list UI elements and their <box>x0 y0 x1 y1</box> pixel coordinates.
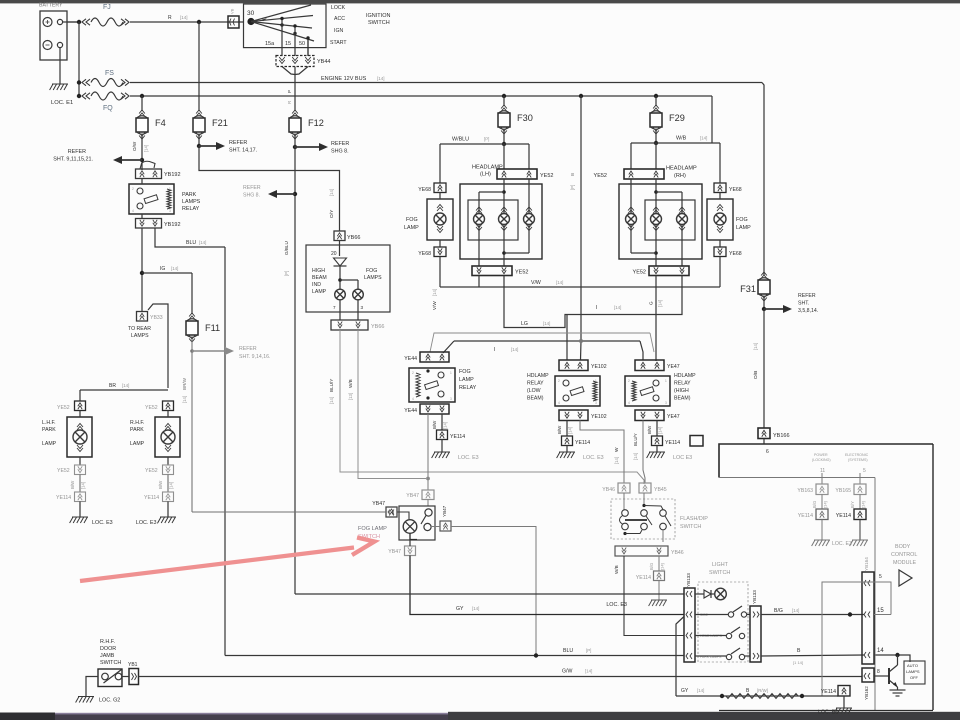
label HIGH BEAM IND LAMP <box>312 268 327 295</box>
module high-beam-ind & fog lamps box <box>306 245 390 312</box>
wire W/B to light switch <box>614 556 684 636</box>
svg-text:[14]: [14] <box>169 482 174 489</box>
svg-text:LOC. E3: LOC. E3 <box>458 455 479 461</box>
label ENGINE 12V BUS <box>321 76 385 82</box>
svg-text:YE52: YE52 <box>57 468 70 474</box>
wire ignition pins to YB44 <box>282 20 308 56</box>
label HEADLAMP LH <box>472 165 503 178</box>
wire FJ to ignition <box>130 15 243 22</box>
wire bus to F4 <box>141 96 143 111</box>
svg-text:F11: F11 <box>205 323 220 333</box>
fuse F29 <box>650 105 685 134</box>
svg-text:FOG: FOG <box>459 369 471 375</box>
svg-text:PARK: PARK <box>182 192 197 198</box>
connector YB46 <box>602 483 630 493</box>
svg-text:HEADLAMP: HEADLAMP <box>666 166 697 172</box>
svg-text:YE68: YE68 <box>418 187 431 193</box>
svg-text:GY: GY <box>681 688 689 694</box>
bcm internal loop <box>822 582 891 696</box>
wire B to auto-lamps <box>874 653 910 662</box>
connector YB133 right <box>750 590 761 662</box>
lamp LH-1 <box>474 207 485 231</box>
wire LH lamp returns <box>479 225 529 266</box>
label FOG LAMP RH <box>736 217 751 231</box>
connector YE102 bottom <box>559 410 607 421</box>
svg-text:[14]: [14] <box>144 145 149 152</box>
svg-text:YB133: YB133 <box>686 573 691 587</box>
svg-text:SWITCH: SWITCH <box>100 660 121 666</box>
refer arrow F12 right <box>293 141 350 155</box>
wire I lower <box>443 339 643 360</box>
svg-text:ELECTRONIC: ELECTRONIC <box>845 453 869 457</box>
svg-text:[14]: [14] <box>614 305 621 310</box>
wire F4 down <box>132 136 149 170</box>
lamp R.H.F. park box <box>155 417 180 457</box>
wire bus upper right drop to F31 <box>762 83 764 276</box>
wire B/Y bcm <box>850 495 866 510</box>
svg-text:LG: LG <box>521 321 528 327</box>
svg-text:ACC: ACC <box>334 16 345 22</box>
connector YB164 strip <box>862 557 874 664</box>
svg-text:YE52: YE52 <box>145 468 158 474</box>
wire B column <box>570 96 581 360</box>
ground battery LOC.E1 <box>50 84 74 106</box>
svg-text:LOC. E3: LOC. E3 <box>583 455 604 461</box>
fog lamp LH box <box>427 199 453 240</box>
connector YB45 <box>639 483 667 493</box>
svg-text:BEAM): BEAM) <box>674 396 691 402</box>
svg-text:1: 1 <box>450 371 452 375</box>
wire BLU/Y output <box>633 421 645 484</box>
wire RH lamp returns <box>631 225 682 266</box>
lamp high beam ind <box>335 289 346 300</box>
body control module outline <box>719 444 933 711</box>
svg-text:5: 5 <box>879 574 882 580</box>
svg-text:1: 1 <box>665 379 667 383</box>
wire YE102 BW <box>557 421 573 437</box>
svg-text:3: 3 <box>361 305 364 310</box>
svg-text:3: 3 <box>169 209 171 213</box>
svg-text:BLU/Y: BLU/Y <box>329 379 334 392</box>
svg-text:YE52: YE52 <box>594 173 607 179</box>
svg-text:RELAY: RELAY <box>674 381 691 387</box>
svg-text:RELAY: RELAY <box>527 381 544 387</box>
svg-text:BLU: BLU <box>563 648 573 654</box>
connector YE52 LHF park <box>57 401 86 411</box>
svg-text:FS: FS <box>105 70 114 77</box>
svg-text:YB44: YB44 <box>317 59 330 65</box>
svg-text:YB47: YB47 <box>442 505 447 517</box>
ground fog relay LOC.E3 <box>432 452 479 461</box>
ground RHF LOC.E3 <box>136 517 176 526</box>
module pins <box>333 300 364 320</box>
svg-text:YB162: YB162 <box>864 686 869 700</box>
svg-text:[14]: [14] <box>658 300 663 307</box>
label HEADLAMP RH <box>666 166 697 180</box>
svg-text:REFER: REFER <box>229 140 247 146</box>
wire LG labels <box>521 321 550 327</box>
svg-text:[14]: [14] <box>199 240 206 245</box>
svg-text:[14]: [14] <box>823 501 828 508</box>
connector YB163 <box>797 484 828 495</box>
svg-text:REFER: REFER <box>243 185 261 191</box>
label POWER/ELECTRONIC <box>812 453 869 462</box>
wire IG branch to F11 <box>142 266 192 314</box>
label FLASH/DIP SWITCH <box>680 516 708 530</box>
wire bus to F29 <box>655 96 657 106</box>
light switch internals <box>695 588 750 660</box>
svg-text:LAMPS: LAMPS <box>906 669 920 674</box>
svg-text:[14]: [14] <box>432 289 437 296</box>
svg-text:SHT.: SHT. <box>798 301 809 307</box>
label LIGHT SWITCH <box>709 562 730 576</box>
svg-text:YE47: YE47 <box>667 364 680 370</box>
connector YB66 top <box>334 231 360 241</box>
svg-text:YB45: YB45 <box>654 487 667 493</box>
connector YE52 RH bottom <box>633 266 689 276</box>
svg-text:[P]: [P] <box>586 648 591 653</box>
svg-text:4: 4 <box>558 401 560 405</box>
svg-text:F21: F21 <box>212 118 228 128</box>
svg-text:LOC. E3: LOC. E3 <box>92 520 113 526</box>
svg-text:[14]: [14] <box>81 482 86 489</box>
svg-text:YB66: YB66 <box>347 235 360 241</box>
fog lamp switch S2 box <box>397 506 435 540</box>
ground low relay LOC.E3 <box>557 452 604 461</box>
wire relay left pin down <box>140 179 144 312</box>
fuse F11 <box>186 313 220 342</box>
headlamp RH outer box <box>619 184 702 259</box>
connector YB192 bottom <box>136 219 181 229</box>
svg-text:YE114: YE114 <box>575 440 590 446</box>
svg-text:LAMPS: LAMPS <box>364 275 382 281</box>
wire YE44 B/W to YE114 <box>432 414 448 430</box>
fuse F4 <box>136 110 166 139</box>
svg-text:F31: F31 <box>740 284 756 294</box>
wire bus lower <box>130 94 712 98</box>
svg-text:START: START <box>330 40 347 46</box>
svg-text:GY: GY <box>456 606 464 612</box>
svg-text:G/W: G/W <box>562 669 572 675</box>
svg-text:W: W <box>614 447 620 452</box>
svg-text:[14]: [14] <box>329 397 334 404</box>
svg-text:TO REAR: TO REAR <box>128 326 151 332</box>
label PARK LAMPS RELAY <box>182 192 201 212</box>
svg-text:LAMP: LAMP <box>459 377 474 383</box>
wire W output <box>580 421 624 484</box>
wire YB44 merge <box>282 67 308 112</box>
headlamp LH inner box <box>468 200 518 240</box>
svg-text:REFER: REFER <box>68 149 86 155</box>
label HDLAMP RELAY LOW <box>527 373 549 402</box>
connector YE44 bottom <box>404 404 449 414</box>
svg-text:15: 15 <box>877 608 884 614</box>
svg-text:YB66: YB66 <box>371 324 384 330</box>
connector YE114 bcm-left <box>798 509 828 520</box>
svg-text:B/W: B/W <box>432 420 437 429</box>
svg-text:YE102: YE102 <box>591 364 607 370</box>
connector YB192 top <box>136 161 181 178</box>
svg-text:R.H.F.: R.H.F. <box>130 420 144 426</box>
ignition switch internals <box>247 5 314 47</box>
wire YE114 high to gnd <box>656 446 658 453</box>
fusible link FQ <box>82 92 129 112</box>
svg-text:[13]: [13] <box>348 393 353 400</box>
wire foglamp RH to conn <box>719 143 721 247</box>
wire I upper <box>504 276 682 361</box>
door jamb switch S5 <box>98 669 122 687</box>
svg-text:[14]: [14] <box>700 136 707 141</box>
wire O/Y branch <box>199 146 340 231</box>
wire F11 down <box>190 339 194 512</box>
connector YE114 fog relay <box>437 430 466 440</box>
svg-text:SHG 8.: SHG 8. <box>243 193 260 199</box>
svg-text:[14]: [14] <box>633 453 638 460</box>
wire FJ junction to F21 <box>198 22 200 111</box>
connector YE102 top <box>559 360 607 371</box>
svg-text:SWITCH: SWITCH <box>680 524 701 530</box>
svg-text:(HIGH: (HIGH <box>674 388 689 394</box>
svg-text:[14]: [14] <box>122 383 129 388</box>
wire bus to F30 <box>503 96 505 106</box>
light switch S4 box <box>698 582 748 662</box>
wire RH lamp feeds <box>631 179 682 213</box>
svg-text:4: 4 <box>412 397 414 401</box>
label TO REAR LAMPS <box>128 326 151 339</box>
connector YE114 LHF <box>56 492 86 502</box>
svg-text:P: P <box>287 90 292 93</box>
svg-text:[14]: [14] <box>377 76 385 81</box>
node battery junction <box>77 20 81 24</box>
wire YB33 hook to park lamps <box>148 304 168 388</box>
svg-text:REFER: REFER <box>331 141 349 147</box>
svg-text:2: 2 <box>132 187 134 191</box>
wire F11 feed into YB47 <box>192 511 386 513</box>
svg-text:3: 3 <box>450 397 452 401</box>
svg-text:O/Y: O/Y <box>329 209 335 218</box>
relay K3 hdlamp low <box>555 376 600 406</box>
fuse F21 <box>193 110 228 139</box>
svg-text:F29: F29 <box>669 113 685 123</box>
connector YE52 RHF lower <box>145 465 174 475</box>
bottom border bar <box>0 712 960 720</box>
svg-text:O/B: O/B <box>753 371 759 379</box>
svg-text:[14]: [14] <box>568 427 573 434</box>
svg-text:(LOCKING): (LOCKING) <box>812 458 831 462</box>
svg-text:11: 11 <box>820 468 825 474</box>
ground transistor <box>890 690 906 696</box>
ground bcm right <box>850 540 868 546</box>
svg-text:BEAM: BEAM <box>312 275 327 281</box>
svg-text:YB33: YB33 <box>150 315 163 321</box>
svg-text:3,5,8,14.: 3,5,8,14. <box>798 308 818 314</box>
svg-text:FOG: FOG <box>736 217 748 223</box>
svg-text:BEAM): BEAM) <box>527 396 544 402</box>
svg-text:(SYSTEMS): (SYSTEMS) <box>848 458 868 462</box>
lamp L.H.F. park box <box>67 417 92 457</box>
svg-text:YB165: YB165 <box>835 488 851 494</box>
ground flashdip LOC.E3 <box>606 600 667 608</box>
ground bcm left <box>812 540 830 546</box>
wire B/G to YE114 <box>649 556 665 571</box>
label ignition positions <box>330 5 347 46</box>
label FOG LAMP RELAY <box>459 369 477 391</box>
battery B1 <box>39 3 67 61</box>
svg-text:[14]: [14] <box>660 563 665 570</box>
wire YB166 to BCM <box>764 439 769 456</box>
svg-text:FOG LAMP: FOG LAMP <box>358 526 387 532</box>
bcm pin 11 <box>820 468 825 484</box>
svg-text:B/Y: B/Y <box>850 501 855 508</box>
svg-text:[P]: [P] <box>484 137 489 142</box>
svg-text:JAMB: JAMB <box>100 653 115 659</box>
svg-text:2: 2 <box>558 379 560 383</box>
relay K1 park lamps <box>129 184 174 214</box>
svg-text:[14]: [14] <box>472 606 479 611</box>
svg-text:YB46: YB46 <box>602 487 615 493</box>
svg-text:YB47: YB47 <box>406 493 419 499</box>
svg-text:LAMPS: LAMPS <box>182 199 201 205</box>
label LOC E3 bcm <box>832 541 852 547</box>
svg-text:[14]: [14] <box>171 266 178 271</box>
svg-text:LOC. E3: LOC. E3 <box>832 541 852 547</box>
svg-text:[14]: [14] <box>182 396 187 403</box>
connector YB46 wide <box>615 546 684 556</box>
fog lamp RH box <box>707 199 733 240</box>
svg-text:B/G: B/G <box>774 608 783 614</box>
connector YE68 LH bottom <box>418 247 446 257</box>
svg-text:B/W: B/W <box>557 425 562 434</box>
svg-text:IND: IND <box>312 282 321 288</box>
svg-text:B/W: B/W <box>158 480 163 489</box>
svg-text:FQ: FQ <box>103 105 113 112</box>
svg-text:F4: F4 <box>155 118 166 128</box>
svg-text:1: 1 <box>169 187 171 191</box>
svg-text:HDLAMP: HDLAMP <box>674 373 696 379</box>
wire F30 into YE52 <box>504 144 529 169</box>
resistor R1 <box>726 694 798 699</box>
svg-text:14: 14 <box>877 648 884 654</box>
svg-text:[P]: [P] <box>570 185 575 190</box>
svg-text:BATTERY: BATTERY <box>39 3 63 9</box>
svg-text:LOC. E1: LOC. E1 <box>51 100 73 106</box>
wire BLU column long <box>224 247 226 656</box>
svg-text:YE114: YE114 <box>636 575 651 581</box>
svg-text:YE44: YE44 <box>404 356 417 362</box>
wire door jamb gnd <box>86 677 98 697</box>
svg-text:BODY: BODY <box>895 544 911 550</box>
node F29 out <box>654 131 658 145</box>
svg-text:ENGINE 12V BUS: ENGINE 12V BUS <box>321 76 367 82</box>
annotation arrow <box>80 538 375 582</box>
svg-text:YE47: YE47 <box>667 414 680 420</box>
connector YE68 RH bottom <box>714 247 742 257</box>
wire RHF BW <box>158 475 174 493</box>
connector YE52 LH bottom <box>472 266 528 276</box>
wire YE114 low to gnd <box>566 446 568 453</box>
label FOG LAMPS <box>364 268 382 281</box>
bcm pin numbers <box>877 574 884 675</box>
wire LHF BW <box>70 475 86 493</box>
svg-text:[14]: [14] <box>511 347 518 352</box>
wire tap to resistor line <box>676 617 684 697</box>
svg-text:YE102: YE102 <box>591 414 607 420</box>
wire BLU long <box>225 648 684 658</box>
wire B/G bcm <box>812 495 828 510</box>
svg-text:BR: BR <box>109 383 116 389</box>
connector YB165 <box>835 484 866 495</box>
wire bus lower right drop <box>711 96 713 143</box>
svg-text:[1 14]: [1 14] <box>793 660 803 665</box>
svg-text:LOCK: LOCK <box>331 5 346 11</box>
ground high relay LOC.E3 <box>647 452 693 461</box>
svg-text:B/G: B/G <box>812 501 817 508</box>
connector YE68 LH top <box>418 183 446 193</box>
svg-text:YE114: YE114 <box>836 513 851 519</box>
wire O/B column <box>753 309 764 428</box>
svg-text:B: B <box>797 648 801 654</box>
connector YB47 top <box>406 490 434 500</box>
svg-text:[14]: [14] <box>697 688 704 693</box>
fusible link FJ <box>82 4 129 26</box>
wire row1 G/BLU to light switch <box>295 593 684 595</box>
svg-text:SHT. 9,14,16.: SHT. 9,14,16. <box>239 354 270 360</box>
label LHF PARK LAMP <box>42 420 57 447</box>
svg-text:IGN: IGN <box>334 28 343 34</box>
wire B to BCM pin14 <box>761 648 864 665</box>
svg-text:[14]: [14] <box>614 457 619 464</box>
svg-text:YB46: YB46 <box>671 550 684 556</box>
connector YE52 LHF lower <box>57 465 86 475</box>
svg-text:YE68: YE68 <box>729 187 742 193</box>
refer arrow F21 <box>197 136 257 154</box>
svg-text:LAMPS: LAMPS <box>131 333 149 339</box>
svg-text:YE44: YE44 <box>404 408 417 414</box>
svg-text:CONTROL: CONTROL <box>891 552 917 558</box>
wire YB47 into switch <box>427 500 429 507</box>
svg-text:G: G <box>649 301 654 305</box>
svg-text:YE68: YE68 <box>729 251 742 257</box>
svg-text:MODULE: MODULE <box>893 560 916 566</box>
svg-text:REFER: REFER <box>798 293 816 299</box>
relay K2 fog lamp <box>409 368 455 402</box>
svg-text:FLASH/DIP: FLASH/DIP <box>680 516 708 522</box>
svg-text:W/B: W/B <box>348 379 353 388</box>
connector YB66 wide <box>331 320 384 330</box>
node F30 out <box>502 131 506 146</box>
svg-text:AUTO: AUTO <box>907 663 918 668</box>
wire V/W <box>432 276 720 311</box>
svg-text:8: 8 <box>877 669 880 675</box>
label FOG LAMP LH <box>404 217 419 231</box>
lamp RH-2 <box>651 207 662 231</box>
wire RHF park down <box>167 411 169 466</box>
refer arrow F31 <box>764 293 818 314</box>
svg-text:(LH): (LH) <box>480 172 491 178</box>
svg-text:6: 6 <box>766 449 769 455</box>
svg-text:[14]: [14] <box>585 669 592 674</box>
svg-text:YB192: YB192 <box>164 172 181 178</box>
connector YE114 resistor <box>821 686 850 697</box>
diode D1 <box>331 251 347 289</box>
connector YB47 left <box>372 501 397 517</box>
svg-text:YE114: YE114 <box>56 495 71 501</box>
svg-text:YB47: YB47 <box>388 549 401 555</box>
wire resistor gnd <box>843 696 845 708</box>
svg-text:15: 15 <box>285 41 291 47</box>
svg-text:F12: F12 <box>308 118 324 128</box>
wire ENGINE 12V BUS upper <box>130 82 762 84</box>
